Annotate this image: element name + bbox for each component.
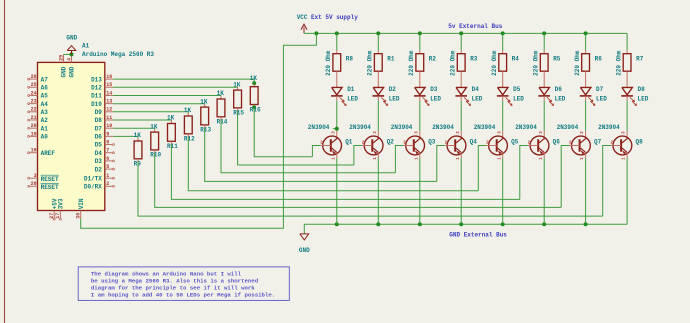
resistor R3 220 Ohm [450,50,478,87]
svg-text:5v External Bus: 5v External Bus [448,23,502,30]
svg-text:GND: GND [61,66,68,77]
pin 1 D1/TX [84,173,115,182]
junction dot at Q1 collector [333,128,337,130]
svg-text:3V3: 3V3 [58,198,65,209]
svg-text:18: 18 [31,148,37,154]
wire D11 pin to resistor R14 [113,95,221,97]
svg-text:R8: R8 [346,55,354,62]
note text box [78,267,289,301]
svg-text:R13: R13 [200,127,211,134]
svg-text:D0/RX: D0/RX [84,184,102,191]
wire Q2 emitter to GND bus [377,158,379,224]
junction dot top GND [70,52,74,56]
svg-text:D8: D8 [638,86,646,93]
svg-text:R2: R2 [429,55,437,62]
resistor R11 1K [167,115,178,150]
wire Q8 emitter to GND bus [626,158,628,224]
svg-text:1K: 1K [250,75,258,82]
svg-text:5: 5 [106,164,109,170]
transistor Q4 2N3904 [432,124,477,160]
svg-text:Q8: Q8 [636,139,644,146]
junction dots on GND bus [335,222,588,226]
svg-text:Q6: Q6 [553,139,561,146]
pin 11 D8 [95,115,113,124]
svg-text:D9: D9 [95,109,103,116]
pin 9 D6 [95,131,113,140]
svg-text:diagram for the principle to s: diagram for the principle to see if it w… [91,285,255,292]
wire GND bus [304,223,627,225]
pin 18 AREF [28,148,56,157]
svg-text:10: 10 [106,123,112,129]
wire D9 pin to resistor R12 [113,111,188,113]
resistor R2 220 Ohm [408,50,436,87]
wire 5V bus to resistor R3 [460,33,462,50]
wire base feed riser to Q5 [478,146,486,191]
svg-text:D3: D3 [95,158,103,165]
svg-text:2N3904: 2N3904 [391,124,413,131]
svg-text:D5: D5 [513,86,521,93]
svg-text:R1: R1 [387,55,395,62]
svg-text:Arduino Mega 2560 R3: Arduino Mega 2560 R3 [82,51,154,58]
wire R16 to Q1 base run [254,108,312,157]
resistor R10 1K [150,123,161,158]
svg-text:220 Ohm: 220 Ohm [325,50,332,76]
svg-text:15: 15 [106,82,112,88]
svg-text:R6: R6 [595,55,603,62]
svg-text:19: 19 [31,131,37,137]
svg-text:2N3904: 2N3904 [308,124,330,131]
wire R10 to Q7 base run [155,153,562,208]
svg-text:17: 17 [55,213,61,219]
pin 5 D2 [95,164,115,173]
LED D5 [497,86,524,105]
svg-text:D7: D7 [95,125,103,132]
wire D7 pin to resistor R10 [113,127,155,129]
svg-text:LED: LED [472,96,483,103]
svg-text:LED: LED [638,96,649,103]
svg-text:D6: D6 [555,86,563,93]
wire D13 pin to resistor R16 [113,78,254,80]
svg-text:R16: R16 [250,106,261,113]
pin 8 D5 [95,139,115,148]
power flag VCC [301,24,307,33]
wire 5V bus to resistor R4 [502,33,504,50]
svg-text:23: 23 [31,99,37,105]
sheet frame left border [4,0,6,323]
svg-text:220 Ohm: 220 Ohm [450,50,457,76]
pin 28 RESET [28,181,59,191]
svg-text:Q7: Q7 [594,139,602,146]
LED D2 [373,86,400,105]
wire 5V bus to resistor R8 [336,33,338,50]
resistor R15 1K [233,81,244,116]
wire D2 cathode to Q2 collector [377,101,379,131]
pin 19 A0 [28,131,49,140]
svg-text:220 Ohm: 220 Ohm [574,50,581,76]
transistor Q3 2N3904 [391,124,436,160]
svg-text:7: 7 [106,148,109,154]
LED D8 [621,86,648,105]
wire D6 pin to resistor R9 [113,135,138,137]
wire Q6 emitter to GND bus [543,158,545,224]
svg-text:LED: LED [347,96,358,103]
pin 2 D0/RX [84,181,115,190]
resistor R9 1K [134,132,142,167]
junction dots on 5V bus [314,31,587,35]
wire base feed riser to Q4 [437,146,445,182]
wire Q5 emitter to GND bus [502,158,504,224]
svg-text:RESET: RESET [41,184,59,191]
wire D1 cathode to Q1 collector [336,101,338,131]
wire R15 to Q2 base run [238,111,354,165]
wire base feed riser to Q3 [395,146,403,173]
LED D4 [455,86,482,105]
wire D7 cathode to Q7 collector [585,101,587,131]
LED D1 [331,86,358,105]
transistor Q5 2N3904 [474,124,519,160]
svg-text:D2: D2 [95,166,103,173]
svg-text:LED: LED [596,96,607,103]
svg-text:14: 14 [106,90,112,96]
svg-text:220 Ohm: 220 Ohm [367,50,374,76]
svg-text:A5: A5 [41,93,49,100]
transistor Q8 2N3904 [598,124,643,160]
svg-text:12: 12 [106,107,112,113]
svg-text:1K: 1K [200,98,208,105]
pin 30 VIN (bottom) [76,198,85,219]
svg-text:1K: 1K [150,123,158,130]
svg-text:26: 26 [31,74,37,80]
svg-text:R4: R4 [512,55,520,62]
wire R11 to Q6 base run [171,144,519,199]
resistor R16 1K [250,75,261,114]
wire joining top GND pins [64,53,72,55]
svg-text:The diagram shows an Arduino N: The diagram shows an Arduino Nano but I … [91,271,242,278]
svg-text:Q2: Q2 [387,139,395,146]
pin 3 RESET [28,173,59,183]
svg-text:A1: A1 [41,125,49,132]
svg-text:D1: D1 [347,86,355,93]
resistor R12 1K [184,107,195,142]
svg-text:A4: A4 [41,101,49,108]
svg-text:2N3904: 2N3904 [557,124,579,131]
pin 24 A5 [28,90,49,99]
svg-text:AREF: AREF [41,150,56,157]
svg-text:22: 22 [31,107,37,113]
wire VCC bus to VIN loop [81,33,317,228]
svg-text:VIN: VIN [78,198,85,209]
svg-text:D8: D8 [95,117,103,124]
svg-text:GND External Bus: GND External Bus [449,232,507,239]
svg-text:16: 16 [106,74,112,80]
svg-text:220 Ohm: 220 Ohm [491,50,498,76]
resistor R6 220 Ohm [574,50,602,87]
svg-text:A7: A7 [41,76,49,83]
transistor Q7 2N3904 [557,124,602,160]
svg-text:2N3904: 2N3904 [515,124,537,131]
LED D6 [538,86,565,105]
wire 5V bus to resistor R1 [377,33,379,50]
wire 5V bus to resistor R5 [543,33,545,50]
svg-text:2N3904: 2N3904 [474,124,496,131]
svg-text:29: 29 [59,55,65,61]
svg-text:8: 8 [106,139,109,145]
ground symbol GND (top, rotated) [67,46,76,55]
wire Q7 emitter to GND bus [585,158,587,224]
svg-text:Q4: Q4 [470,139,478,146]
svg-text:D3: D3 [430,86,438,93]
transistor Q1 2N3904 [308,124,353,160]
wire Q1 emitter to GND bus [336,158,338,224]
wire D3 cathode to Q3 collector [419,101,421,131]
svg-text:A6: A6 [41,84,49,91]
resistor R13 1K [200,98,211,133]
svg-text:be using a Mega 2560 R3. Also: be using a Mega 2560 R3. Also this is a … [91,278,259,285]
pin 22 A3 [28,107,49,116]
svg-text:3: 3 [34,173,37,179]
resistor R1 220 Ohm [367,50,395,87]
pin 27 +5V (bottom) [49,198,58,220]
wire D8 pin to resistor R11 [113,119,171,121]
pin 23 A4 [28,99,49,108]
svg-text:R10: R10 [150,152,161,159]
svg-text:LED: LED [389,96,400,103]
wire 5V bus to resistor R6 [585,33,587,50]
svg-text:R11: R11 [167,143,178,150]
svg-text:21: 21 [31,115,37,121]
resistor R14 1K [217,90,228,125]
wire Q4 emitter to GND bus [460,158,462,224]
svg-text:1K: 1K [217,90,225,97]
svg-text:D13: D13 [91,76,102,83]
svg-text:27: 27 [49,213,55,219]
wire Q3 emitter to GND bus [419,158,421,224]
svg-text:GND: GND [299,247,310,254]
svg-text:R12: R12 [184,136,195,143]
LED D3 [414,86,441,105]
svg-text:R7: R7 [636,55,644,62]
svg-text:D11: D11 [91,93,102,100]
wire base feed riser to Q6 [520,146,528,200]
svg-text:28: 28 [31,181,37,187]
wire base feed riser to Q2 [354,146,362,166]
LED D7 [580,86,607,105]
svg-text:1K: 1K [167,115,175,122]
pin 13 D10 [91,99,113,108]
wire D12 pin to resistor R15 [113,86,238,88]
svg-text:4: 4 [67,58,73,61]
wire R14 to Q3 base run [221,120,395,173]
svg-text:I am hoping to add 40 to 50 LE: I am hoping to add 40 to 50 LEDs per Meg… [91,292,275,299]
svg-text:R3: R3 [470,55,478,62]
svg-text:LED: LED [513,96,524,103]
svg-text:Q1: Q1 [345,139,353,146]
wire 5V bus to resistor R7 [626,33,628,50]
svg-text:Q3: Q3 [428,139,436,146]
svg-text:24: 24 [31,90,37,96]
svg-text:2N3904: 2N3904 [349,124,371,131]
svg-text:1K: 1K [184,107,192,114]
pin 15 D12 [91,82,113,91]
svg-text:6: 6 [106,156,109,162]
pin 10 D7 [95,123,113,132]
svg-text:A2: A2 [41,117,49,124]
wire D10 pin to resistor R13 [113,103,205,105]
svg-text:Q5: Q5 [511,139,519,146]
svg-text:D7: D7 [596,86,604,93]
svg-text:D10: D10 [91,101,102,108]
svg-text:D6: D6 [95,134,103,141]
svg-text:1: 1 [106,173,109,179]
svg-text:D4: D4 [472,86,480,93]
note text [91,271,275,299]
svg-text:VCC: VCC [297,14,308,21]
wire base feed riser to Q1 [312,146,320,157]
svg-text:A1: A1 [82,43,90,50]
Arduino Mega 2560 R3 symbol A1 body [38,62,105,210]
svg-text:30: 30 [76,213,82,219]
svg-text:R5: R5 [553,55,561,62]
wire D4 cathode to Q4 collector [460,101,462,131]
svg-text:D12: D12 [91,84,102,91]
svg-text:220 Ohm: 220 Ohm [408,50,415,76]
svg-text:D1/TX: D1/TX [84,175,102,182]
wire base feed riser to Q7 [561,146,569,208]
pin 7 D4 [95,148,115,157]
svg-text:2N3904: 2N3904 [598,124,620,131]
svg-text:13: 13 [106,99,112,105]
wire D8 cathode to Q8 collector [626,101,628,131]
svg-text:Ext 5V supply: Ext 5V supply [311,14,358,21]
ground symbol GND (bottom) [300,224,309,240]
wire R13 to Q4 base run [205,128,437,181]
wire D5 cathode to Q5 collector [502,101,504,131]
pin 21 A2 [28,115,49,124]
svg-text:9: 9 [106,131,109,137]
pin 12 D9 [95,107,113,116]
wire R9 to Q8 base run [138,162,603,216]
svg-text:A3: A3 [41,109,49,116]
svg-text:LED: LED [430,96,441,103]
pin 6 D3 [95,156,115,165]
pin 25 A6 [28,82,49,91]
svg-text:D2: D2 [389,86,397,93]
resistor R7 220 Ohm [616,50,644,87]
wire 5V bus [304,32,627,34]
svg-text:11: 11 [106,115,112,121]
resistor R8 220 Ohm [325,50,353,87]
svg-text:R9: R9 [134,161,142,168]
pin 4 GND (top) [67,54,76,77]
svg-text:25: 25 [31,82,37,88]
wire D6 cathode to Q6 collector [543,101,545,131]
wire base feed riser to Q8 [603,146,611,217]
svg-text:D4: D4 [95,150,103,157]
transistor Q2 2N3904 [349,124,394,160]
pin 16 D13 [91,74,113,83]
svg-text:1K: 1K [134,132,142,139]
resistor R5 220 Ohm [533,50,561,87]
svg-text:RESET: RESET [41,176,59,183]
svg-text:D5: D5 [95,142,103,149]
svg-text:2: 2 [106,181,109,187]
svg-text:LED: LED [555,96,566,103]
svg-text:GND: GND [69,66,76,77]
wire R12 to Q5 base run [188,137,478,191]
svg-text:R14: R14 [217,119,228,126]
pin 20 A1 [28,123,49,132]
transistor Q6 2N3904 [515,124,560,160]
resistor R4 220 Ohm [491,50,519,87]
svg-text:2N3904: 2N3904 [432,124,454,131]
pin 17 3V3 (bottom) [55,198,64,220]
svg-text:220 Ohm: 220 Ohm [533,50,540,76]
svg-text:R15: R15 [233,110,244,117]
svg-text:1K: 1K [233,81,241,88]
pin 14 D11 [91,90,113,99]
pin 26 A7 [28,74,49,83]
svg-text:GND: GND [66,35,77,42]
pin 29 GND (top) [59,54,68,77]
svg-text:A0: A0 [41,134,49,141]
wire 5V bus to resistor R2 [419,33,421,50]
svg-text:220 Ohm: 220 Ohm [616,50,623,76]
svg-text:20: 20 [31,123,37,129]
